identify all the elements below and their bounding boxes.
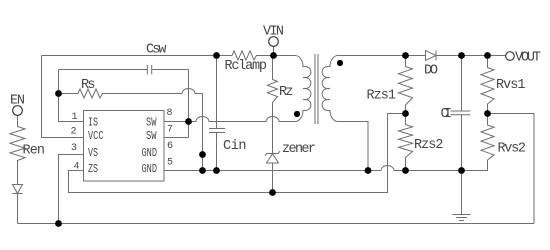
svg-text:Rclamp: Rclamp xyxy=(225,59,268,74)
svg-text:8: 8 xyxy=(167,108,173,119)
svg-text:SW: SW xyxy=(146,116,157,130)
svg-text:CI: CI xyxy=(441,107,453,122)
svg-text:GND: GND xyxy=(142,146,158,160)
svg-text:zener: zener xyxy=(282,142,316,157)
svg-text:5: 5 xyxy=(167,158,173,169)
svg-text:1: 1 xyxy=(72,112,78,123)
svg-text:Rs: Rs xyxy=(81,78,96,93)
svg-text:Ren: Ren xyxy=(23,144,46,159)
svg-text:Rzs2: Rzs2 xyxy=(414,138,444,153)
svg-text:Rz: Rz xyxy=(279,85,294,100)
svg-text:VS: VS xyxy=(88,146,98,160)
svg-text:Rvs2: Rvs2 xyxy=(498,142,527,157)
svg-text:VIN: VIN xyxy=(263,25,284,40)
svg-text:Rvs1: Rvs1 xyxy=(496,78,526,93)
svg-text:4: 4 xyxy=(74,162,80,173)
svg-text:VCC: VCC xyxy=(88,129,104,143)
svg-text:SW: SW xyxy=(146,129,157,143)
svg-text:Csw: Csw xyxy=(146,43,167,58)
svg-text:ZS: ZS xyxy=(88,162,98,176)
svg-text:3: 3 xyxy=(71,143,77,154)
svg-text:DO: DO xyxy=(424,64,438,79)
svg-text:6: 6 xyxy=(167,141,173,152)
svg-text:2: 2 xyxy=(71,127,77,138)
svg-text:EN: EN xyxy=(10,94,25,109)
svg-text:Rzs1: Rzs1 xyxy=(367,89,397,104)
svg-text:Cin: Cin xyxy=(223,139,247,154)
svg-text:7: 7 xyxy=(167,125,173,136)
svg-text:VOUT: VOUT xyxy=(515,51,541,66)
svg-text:GND: GND xyxy=(142,162,158,176)
svg-text:IS: IS xyxy=(88,116,98,130)
